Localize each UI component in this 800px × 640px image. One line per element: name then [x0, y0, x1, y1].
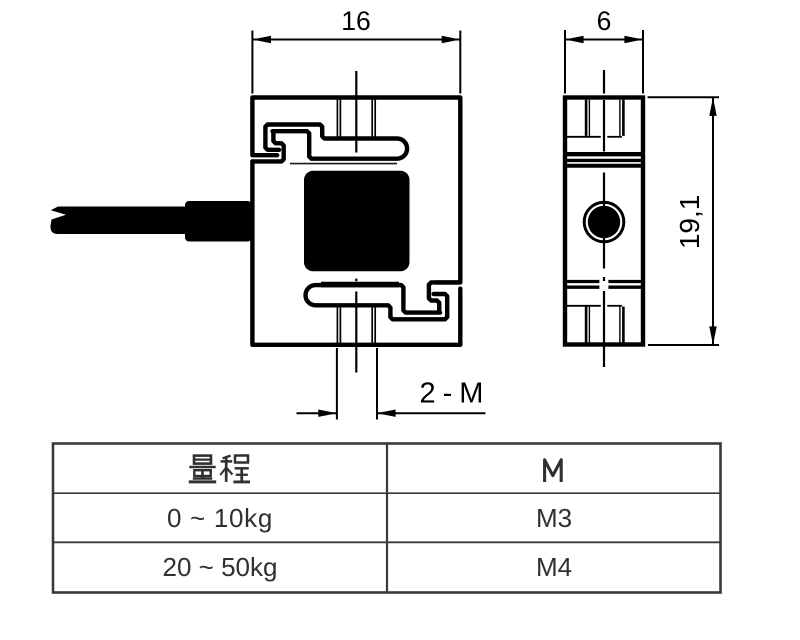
- table: row line 1: [53, 492, 721, 494]
- dimension 19,1: bottom arrowhead: [709, 326, 716, 345]
- svg-text:2-M: 2-M: [420, 378, 491, 410]
- dimension 6: dimension line: [565, 39, 643, 41]
- side view: body rectangle: [565, 98, 643, 345]
- glyph 量: [189, 456, 216, 482]
- dimension 6: centerline stub above side view: [603, 70, 605, 94]
- svg-text:M3: M3: [536, 503, 572, 533]
- svg-text:16: 16: [341, 6, 370, 36]
- dimension 6: extension lines: [565, 30, 643, 94]
- svg-text:20 ~ 50kg: 20 ~ 50kg: [163, 552, 278, 582]
- dimension 16: right arrowhead: [442, 36, 461, 43]
- top slot: inner tongue: [252, 133, 283, 161]
- dimension 19,1: dimension line: [712, 97, 714, 345]
- strain gauge: central black square: [304, 171, 410, 271]
- cable: connector block at body: [185, 201, 252, 242]
- table header: 量程 drawn glyphs: [189, 456, 250, 482]
- bottom bolt hole thread lines: [337, 307, 375, 344]
- dimension 16: dimension line: [252, 39, 460, 41]
- thin slot base line (top): [290, 163, 397, 165]
- bottom slot: 180-degree rotated copy of top slot: [306, 282, 461, 319]
- svg-text:19,1: 19,1: [674, 195, 705, 250]
- side view: upper slot-opening lines: [563, 152, 645, 156]
- cable: lead-out wire with notched end: [51, 207, 187, 235]
- dimension 2-M: left arrowhead (pointing right): [318, 410, 337, 417]
- top slot: outer boundary with hook, step and round end: [252, 125, 407, 162]
- side view: mounting hole ring: [584, 202, 624, 242]
- side view: top hole bottom line: [566, 136, 601, 138]
- dimension 6: left arrowhead: [565, 36, 584, 43]
- side view: mounting hole filled circle: [588, 206, 620, 238]
- dimension 16: left arrowhead: [252, 36, 271, 43]
- slot boundary thickening (bottom): [321, 282, 399, 288]
- dimension 6: right arrowhead: [624, 36, 643, 43]
- glyph 程: [220, 456, 250, 482]
- dimension 2-M: extension lines: [297, 348, 486, 420]
- dimension 2-M: right arrowhead (pointing left): [377, 410, 396, 417]
- body outline upper: left edge, top edge, right edge with slot-opening lip: [252, 98, 460, 283]
- table: outer border: [53, 444, 721, 593]
- side view: bottom threaded hole lines: [585, 307, 588, 343]
- side view: lower slot-opening lines: [563, 282, 645, 343]
- dimension 2-M: dimension line right segment: [377, 412, 486, 414]
- table: column divider: [386, 444, 388, 593]
- body outline lower: left edge, bottom edge, right edge: [252, 161, 460, 344]
- svg-text:6: 6: [597, 6, 612, 36]
- dimension 19,1: extension lines: [648, 97, 720, 345]
- side view: vertical centerline segments: [603, 100, 605, 367]
- side view: bottom hole top line: [566, 305, 601, 307]
- dimension 19,1: top arrowhead: [709, 97, 716, 116]
- top bolt hole thread lines: [337, 99, 375, 137]
- front view vertical centerline (top): [355, 71, 357, 153]
- table: row line 2: [53, 541, 721, 543]
- svg-text:0 ~ 10kg: 0 ~ 10kg: [167, 503, 273, 533]
- front view: S-type load cell body: [252, 98, 460, 345]
- dimension 2-M: dimension line left segment: [297, 412, 337, 414]
- svg-text:M4: M4: [536, 552, 572, 582]
- table header: M: [545, 460, 562, 482]
- side view: top threaded hole lines: [566, 100, 623, 137]
- front view vertical centerline (bottom): [355, 292, 357, 373]
- dimension 16: extension lines: [252, 31, 460, 94]
- centerline short dash (bottom): [355, 279, 357, 282]
